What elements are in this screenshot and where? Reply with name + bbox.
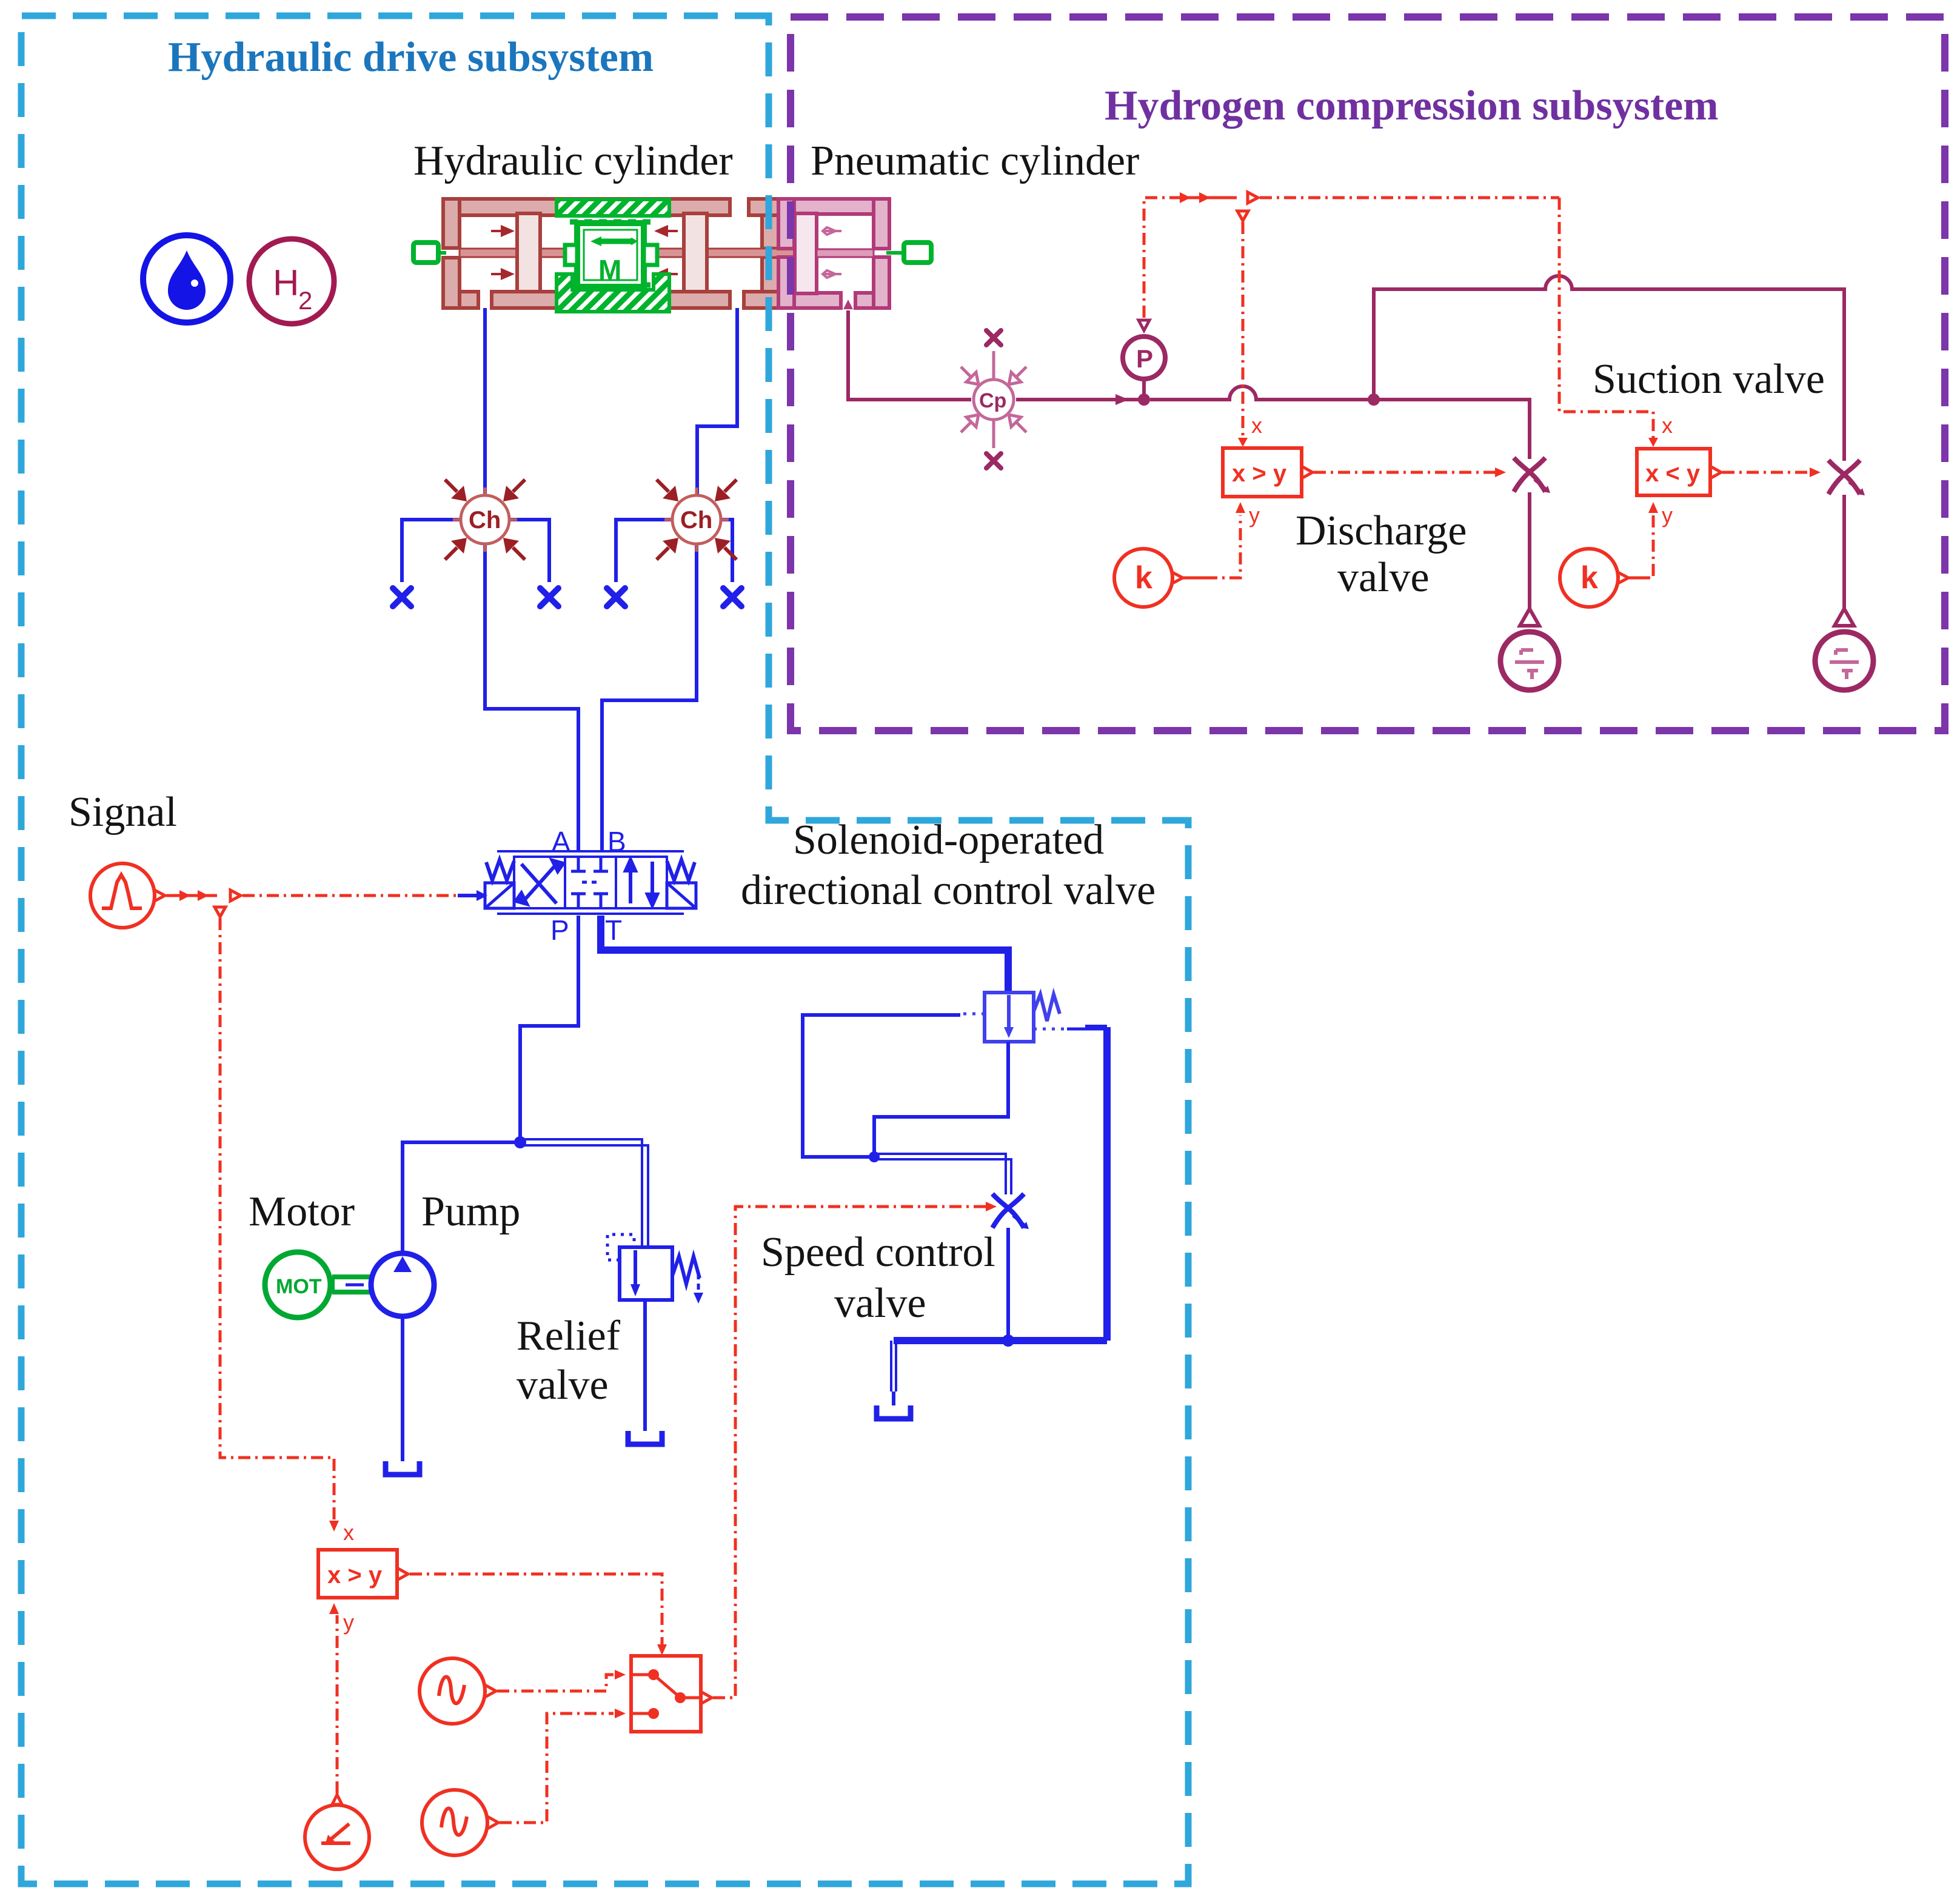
suction comparator x&lt;y	[1637, 449, 1710, 495]
suction inlet source gauge	[1815, 609, 1873, 690]
hydrogen gas properties icon (H2)	[249, 239, 334, 324]
red control line from gauge P upward and across	[1144, 198, 1179, 318]
svg-text:MOT: MOT	[276, 1275, 322, 1298]
wire: sine 2 to switch input 2	[500, 1713, 614, 1823]
chamber valve Ch1	[445, 480, 525, 560]
wire: junction to pump	[403, 1142, 520, 1251]
red control tee down triangle at discharge branch	[1237, 211, 1248, 221]
red control line down to suction comparator x	[1559, 198, 1653, 438]
hydraulic fluid properties icon (drop)	[143, 235, 230, 323]
wire: Ch2 left port to dead end	[616, 520, 671, 582]
svg-text:H: H	[273, 263, 299, 303]
wire: constant to comparator y input	[336, 1615, 339, 1793]
pneumatic chamber arrows (outline)	[823, 227, 841, 278]
valve right return spring	[667, 860, 695, 880]
valve centre position blocked ports	[571, 857, 608, 908]
red control line to suction branch	[1260, 196, 1559, 199]
svg-text:Discharge: Discharge	[1296, 507, 1467, 554]
wire: comparator output to switch	[410, 1574, 662, 1644]
svg-text:Hydraulic drive subsystem: Hydraulic drive subsystem	[168, 34, 654, 81]
pressure compensator valve of speed control group	[959, 993, 1103, 1042]
pneumatic port arrow	[843, 300, 853, 309]
relief valve	[607, 1234, 703, 1304]
svg-text:valve: valve	[1337, 554, 1430, 601]
svg-text:P: P	[550, 914, 569, 946]
wire: throttle valve down to lower junction	[1006, 1228, 1010, 1341]
wire: switch output up to speed throttle	[713, 1207, 986, 1698]
node: speed loop junction	[869, 1151, 880, 1162]
svg-text:Speed control: Speed control	[761, 1229, 995, 1276]
signal arrow into valve solenoid	[458, 894, 478, 897]
wire: suction comparator output to suction throttle	[1722, 471, 1810, 474]
manifold riser to suction line (with hop over red line)	[1374, 276, 1844, 461]
svg-text:y: y	[1249, 503, 1260, 527]
svg-text:Relief: Relief	[517, 1313, 621, 1359]
pneumatic rod	[817, 249, 874, 257]
hydraulic piston right	[684, 213, 707, 292]
compression chamber valve Cp	[961, 351, 1026, 448]
wire: discharge comparator output to discharge throttle	[1314, 471, 1495, 474]
hydraulic cylinder piston rod	[460, 249, 795, 257]
electric motor MOT	[265, 1252, 330, 1318]
tank: pump suction	[386, 1461, 420, 1475]
node: pump outlet junction	[514, 1136, 526, 1148]
svg-text:valve: valve	[517, 1362, 609, 1408]
wire: Ch1 left port to dead end	[402, 520, 460, 582]
svg-text:x < y: x < y	[1645, 460, 1701, 487]
svg-text:Motor: Motor	[249, 1188, 355, 1235]
wire: hydraulic cylinder left port to chamber valve Ch1	[483, 308, 487, 494]
wire: Ch2 bottom to valve port B	[602, 545, 697, 852]
wire: relief valve to tank	[643, 1300, 647, 1431]
discharge outlet source gauge	[1500, 609, 1559, 690]
wire: pneumatic cylinder port to Cp valve	[848, 310, 971, 400]
Cp plugged ends (x marks)	[986, 330, 1001, 345]
hydraulic piston left	[517, 213, 540, 292]
comparator block x&gt;y (hydraulic)	[318, 1550, 397, 1598]
switch input arrows	[615, 1670, 626, 1680]
valve port labels A B P T	[550, 826, 626, 946]
svg-text:x: x	[1251, 413, 1262, 438]
hydraulic pump	[371, 1253, 434, 1316]
wire: discharge throttle to outlet gauge	[1528, 492, 1531, 609]
wire: lower junction horizontal (thick)	[894, 1337, 1107, 1344]
svg-text:y: y	[1662, 503, 1673, 527]
node: lower speed junction	[1002, 1335, 1014, 1347]
valve right solenoid	[667, 883, 696, 908]
svg-text:Hydraulic cylinder: Hydraulic cylinder	[413, 138, 733, 184]
pressure gauge P	[1123, 320, 1165, 397]
wire: Ch2 right port to dead end	[722, 520, 732, 582]
mass block M	[565, 223, 657, 287]
mass block upper guide pad	[557, 199, 669, 216]
signal wire with arrows to junction	[166, 894, 217, 897]
wire: valve port T to speed control group (thick)	[601, 916, 1008, 994]
directional control valve body (3 position boxes)	[497, 851, 684, 914]
wire: sine 1 to switch input 1	[497, 1675, 614, 1691]
chamber valve Ch2	[657, 480, 737, 560]
svg-text:Hydrogen compression subsyste: Hydrogen compression subsystem	[1105, 82, 1719, 129]
discharge gain k	[1114, 549, 1183, 607]
svg-text:x: x	[343, 1520, 354, 1545]
svg-text:M: M	[598, 254, 621, 286]
svg-text:directional control valve: directional control valve	[741, 867, 1156, 914]
suction throttle valve	[1828, 460, 1865, 495]
tank: speed control drain	[877, 1405, 911, 1419]
svg-text:Suction valve: Suction valve	[1593, 356, 1825, 403]
valve left return spring	[486, 860, 514, 880]
wire: valve port P down to pump node	[520, 916, 578, 1140]
valve left solenoid	[485, 883, 514, 908]
comparator y input arrow	[329, 1603, 339, 1614]
svg-text:B: B	[607, 826, 626, 857]
wire: junction to relief valve (double pipe)	[523, 1139, 648, 1247]
wire: Ch1 bottom to valve port A	[485, 545, 578, 852]
motor shaft	[332, 1277, 370, 1292]
svg-text:T: T	[605, 914, 622, 946]
hydraulic drive subsystem dashed boundary	[21, 16, 1188, 1884]
discharge comparator x&gt;y	[1223, 448, 1302, 497]
svg-text:x > y: x > y	[1232, 460, 1287, 487]
suction comparator y input	[1648, 502, 1658, 513]
wire: Ch1 right port to dead end	[510, 520, 549, 582]
signal branch tee (down triangle)	[215, 907, 226, 917]
pneumatic piston	[795, 213, 817, 293]
hydraulic cylinder left rod connector (green)	[437, 251, 446, 255]
wire: Cp valve to manifold with flow arrow	[1016, 398, 1142, 401]
wire: hydraulic cylinder right port to chamber valve Ch2	[697, 308, 737, 494]
svg-text:Solenoid-operated: Solenoid-operated	[793, 817, 1104, 863]
svg-text:Pump: Pump	[421, 1188, 520, 1235]
wire: lower junction to tank (double then single)	[891, 1341, 896, 1392]
svg-text:Cp: Cp	[979, 389, 1006, 412]
signal source circle	[90, 863, 165, 928]
pneumatic cylinder body	[778, 199, 889, 308]
wire: compensator loop left side	[874, 1042, 1008, 1157]
node: pressure gauge junction	[1138, 394, 1150, 406]
wire: suction throttle to inlet gauge	[1842, 495, 1846, 609]
hydraulic cylinder body	[443, 199, 778, 308]
svg-text:y: y	[343, 1610, 354, 1635]
constant source circle	[305, 1795, 369, 1869]
switch block	[631, 1656, 712, 1732]
wire: junction to throttle valve (double)	[874, 1154, 1011, 1194]
wire: pump to tank	[401, 1316, 404, 1461]
tank: relief valve drain	[628, 1431, 662, 1444]
mass block lower guide pad	[557, 274, 669, 312]
hydrogen compression subsystem dashed boundary	[791, 17, 1945, 731]
valve left position crossed arrows	[516, 860, 563, 904]
valve right position straight arrows	[626, 860, 657, 905]
sine source 1	[420, 1658, 496, 1724]
svg-text:x > y: x > y	[327, 1562, 383, 1589]
discharge comparator y input	[1236, 502, 1245, 513]
svg-text:Pneumatic cylinder: Pneumatic cylinder	[811, 138, 1139, 184]
svg-text:x: x	[1662, 413, 1673, 438]
svg-text:P: P	[1136, 344, 1153, 373]
wire: junction to pilot loop (up and over)	[803, 1015, 960, 1157]
manifold: junction to discharge throttle (with hop over red line)	[1150, 386, 1530, 459]
speed control throttle valve (blue)	[992, 1194, 1029, 1229]
suction gain k	[1560, 549, 1628, 607]
svg-text:valve: valve	[834, 1280, 926, 1327]
wire: thick riser to compensator pilot	[1103, 1027, 1111, 1341]
svg-text:A: A	[552, 826, 570, 857]
signal wire to valve solenoid (dash-dot)	[242, 894, 456, 897]
hydraulic chamber flow arrows	[491, 227, 678, 278]
sine source 2	[422, 1790, 498, 1855]
svg-text:2: 2	[298, 286, 312, 315]
svg-text:Signal: Signal	[69, 789, 177, 836]
discharge throttle valve	[1514, 458, 1550, 493]
node: riser junction	[1368, 394, 1380, 406]
red control line down to discharge comparator x	[1242, 222, 1245, 439]
plugged end x marks (blue)	[393, 588, 411, 606]
signal wire down to comparator x input	[220, 918, 334, 1522]
pneumatic cylinder right rod connector (green)	[886, 251, 906, 255]
